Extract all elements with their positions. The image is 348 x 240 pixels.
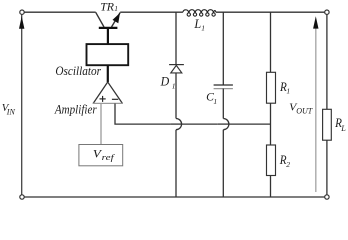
wire plus input to Vref: [100, 104, 102, 145]
resistor RL: [323, 109, 332, 140]
V_IN arrow head: [19, 16, 24, 28]
svg-text:D: D: [160, 74, 170, 88]
inductor L1 coil: [183, 10, 216, 13]
label R2: [279, 153, 290, 169]
label R1: [279, 80, 290, 96]
svg-text:1: 1: [286, 87, 290, 96]
label L1: [193, 17, 205, 33]
diode D1 lower wire: [175, 73, 177, 119]
svg-text:Amplifier: Amplifier: [54, 102, 97, 116]
diode D1 cathode bar: [169, 64, 184, 66]
wire divider middle: [270, 103, 272, 145]
minus input mark: [112, 98, 118, 100]
svg-text:L: L: [193, 17, 201, 31]
op-amp amplifier triangle: [93, 82, 123, 103]
wire feedback from minus input: [115, 104, 170, 125]
terminal top-right: [325, 10, 329, 14]
wire hop of D1 branch over feedback: [176, 119, 182, 130]
resistor R1: [267, 72, 276, 103]
wire feedback under hop 1: [170, 123, 181, 125]
label D1: [160, 74, 176, 90]
capacitor C1 bottom wire: [222, 130, 224, 197]
terminal bottom-left: [20, 195, 24, 199]
terminal bottom-right: [325, 195, 329, 199]
svg-text:Oscillator: Oscillator: [55, 64, 101, 78]
wire RL branch top: [326, 15, 328, 110]
wire top rail after inductor: [216, 11, 325, 13]
wire bottom rail: [24, 196, 324, 198]
svg-text:ref: ref: [102, 152, 116, 162]
svg-text:TR: TR: [100, 0, 114, 14]
transistor TR1 emitter slant: [112, 13, 121, 28]
label TR1: [100, 0, 118, 14]
label V_OUT: [289, 102, 313, 116]
wire RL branch bottom: [326, 140, 328, 195]
wire top rail left segment: [24, 11, 95, 13]
transistor TR1 collector slant: [96, 12, 104, 27]
wire divider bottom: [270, 176, 272, 197]
V_OUT arrow stem: [315, 28, 317, 192]
capacitor C1 bottom plate: [214, 88, 233, 90]
inductor L1 loop circles: [187, 13, 215, 16]
label Vref: [93, 149, 116, 162]
wire feedback under hop 2: [218, 123, 229, 125]
terminal top-left: [20, 10, 24, 14]
capacitor C1 top plate: [214, 84, 233, 86]
svg-text:1: 1: [213, 97, 217, 106]
svg-text:1: 1: [114, 4, 118, 13]
svg-text:IN: IN: [6, 108, 16, 117]
wire divider top: [270, 12, 272, 72]
capacitor C1 top wire: [222, 12, 224, 85]
transistor TR1 base bar: [99, 27, 118, 29]
wire top rail right segment: [120, 11, 183, 13]
wire hop of C1 branch over feedback: [223, 119, 229, 130]
resistor R2: [267, 145, 276, 176]
capacitor C1 middle wire: [222, 89, 224, 119]
oscillator box: [87, 44, 129, 65]
diode D1 top wire: [175, 12, 177, 65]
svg-text:L: L: [340, 124, 346, 133]
svg-text:1: 1: [201, 24, 205, 33]
transistor TR1 emitter arrow: [113, 13, 121, 23]
label V_IN: [2, 102, 16, 117]
wire feedback middle: [182, 123, 218, 125]
label RL: [334, 116, 346, 133]
svg-text:OUT: OUT: [296, 107, 313, 116]
label C1: [206, 92, 217, 107]
wire oscillator to amplifier apex: [107, 65, 109, 82]
plus input mark: [100, 96, 106, 102]
transistor TR1 base lead: [107, 28, 109, 45]
diode D1 triangle: [171, 65, 182, 73]
svg-text:2: 2: [286, 160, 290, 169]
wire feedback right to divider: [229, 123, 271, 125]
V_OUT arrow head: [313, 16, 318, 28]
Vref box: [79, 145, 123, 166]
wire left rail: [21, 15, 23, 195]
diode D1 bottom wire: [175, 130, 177, 197]
svg-text:1: 1: [172, 81, 176, 90]
